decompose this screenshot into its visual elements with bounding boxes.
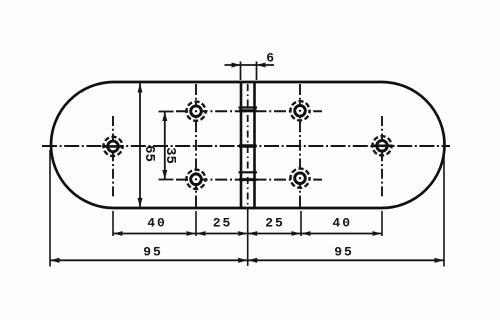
center line dash across strip bottom row: [239, 178, 257, 181]
main horizontal center line: [42, 145, 450, 147]
knuckle division line upper: [239, 106, 258, 108]
hole left end: [103, 137, 122, 156]
hole bottom left: [186, 170, 205, 189]
knuckle division line lower: [239, 171, 258, 173]
center dot hole bottom right: [299, 177, 301, 179]
dimension 35 line: [159, 112, 174, 180]
hole top left: [186, 102, 205, 121]
center line dash across strip middle: [239, 144, 257, 147]
bottom hole row center line: [176, 179, 322, 181]
dimension row 40 25 25 40: [113, 231, 382, 236]
svg-text:40: 40: [332, 216, 352, 231]
svg-text:25: 25: [213, 216, 233, 231]
svg-text:95: 95: [334, 245, 354, 260]
dimension row 95 95: [50, 258, 444, 263]
hinge plate outline: [51, 82, 445, 208]
vertical center line left hole column: [195, 84, 197, 207]
center dot hole top right: [299, 110, 301, 112]
dimension 6 line: [225, 62, 275, 81]
vertical center line right end hole: [381, 116, 383, 199]
chain dimension row extension lines: [50, 150, 444, 267]
vertical center line left end hole: [112, 116, 114, 199]
svg-text:65: 65: [141, 145, 157, 162]
hole bottom right: [290, 169, 309, 188]
hole top right: [290, 101, 309, 120]
dimension 65 line: [138, 83, 143, 208]
vertical center line right hole column: [299, 84, 301, 207]
hinge knuckle strip right line: [253, 81, 256, 209]
svg-text:95: 95: [143, 245, 163, 260]
center dot hole top left: [195, 110, 197, 112]
svg-text:40: 40: [147, 216, 167, 231]
svg-text:6: 6: [266, 51, 274, 66]
svg-text:35: 35: [162, 147, 178, 164]
hole right end: [372, 136, 391, 155]
hinge knuckle strip left line: [240, 81, 243, 209]
center bar through right end hole: [372, 145, 393, 148]
center dot hole bottom left: [195, 178, 197, 180]
center line dash across strip top row: [239, 109, 257, 112]
hinge pin center line: [247, 84, 249, 205]
top hole row center line: [176, 110, 322, 112]
center bar through left end hole: [103, 145, 124, 148]
svg-text:25: 25: [265, 216, 285, 231]
